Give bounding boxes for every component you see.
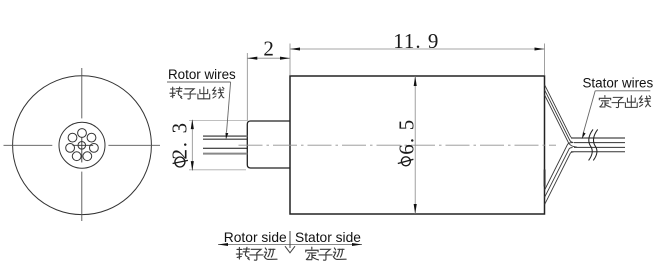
horizontal centerline right segment xyxy=(108,144,160,146)
underline rotor wires xyxy=(167,81,231,83)
wire-bundle circle xyxy=(59,122,105,168)
svg-text:11. 9: 11. 9 xyxy=(393,29,439,53)
horizontal centerline left segment xyxy=(4,144,53,146)
wire circle 6 (right) xyxy=(90,144,99,153)
extension line at x=544.5 xyxy=(544,44,546,76)
wire circle 7 (upper-right) xyxy=(87,133,96,142)
wire break curve 2 xyxy=(593,129,597,160)
center shaft circle xyxy=(78,142,86,150)
dim text phi6.5: phi symbol xyxy=(398,159,414,163)
arrow right end xyxy=(352,243,362,246)
stator wire horizontal 3 xyxy=(574,146,625,148)
stator wire horizontal 2 xyxy=(574,142,625,144)
rotor wire 4 xyxy=(203,153,247,155)
wire circle 1 (top) xyxy=(78,129,87,138)
arrow right of dim 11.9 xyxy=(535,47,545,50)
wire circle 2 (upper-left) xyxy=(68,133,77,142)
arrow left of dim 11.9 xyxy=(290,47,300,50)
outer circle (slip ring housing front view) xyxy=(13,76,152,215)
extension line at x=290 xyxy=(289,44,291,76)
wire break curve 1 xyxy=(589,129,593,160)
arrow left end xyxy=(218,243,228,246)
arrow right of dim 2 xyxy=(280,57,290,60)
svg-text:2. 3: 2. 3 xyxy=(167,121,191,159)
center mark horizontal xyxy=(73,144,94,146)
double arrow line xyxy=(218,244,362,246)
svg-text:Rotor wires: Rotor wires xyxy=(168,67,236,82)
dimension line 11.9 xyxy=(290,48,545,50)
leader arrow stator wires xyxy=(582,132,586,139)
dimension line 2 xyxy=(247,57,290,59)
extension tick top xyxy=(189,119,247,121)
divider vertical line xyxy=(289,231,291,248)
leader rotor wires xyxy=(227,82,231,133)
stator top bundle line 1 xyxy=(545,85,574,138)
arrow down of phi2.3 xyxy=(191,161,194,171)
label text 定子出线 xyxy=(599,96,650,108)
rotor wire 2 xyxy=(203,138,247,140)
dimension line phi6.5 vertical xyxy=(414,76,416,214)
arrow left of dim 2 xyxy=(247,57,257,60)
stator bottom bundle line 1 xyxy=(545,152,574,205)
stator wire horizontal 1 xyxy=(571,137,625,139)
dark merge segment on right edge bottom xyxy=(544,170,546,187)
stator top bundle line 2 xyxy=(545,90,573,143)
rotor wire 1 xyxy=(203,135,247,137)
svg-text:2: 2 xyxy=(263,36,274,60)
svg-text:Stator side: Stator side xyxy=(295,230,361,245)
vertical centerline top segment xyxy=(81,68,83,118)
rotor shaft protrusion xyxy=(247,121,290,168)
svg-text:6. 5: 6. 5 xyxy=(394,118,418,154)
arrow down of phi6.5 xyxy=(414,204,417,214)
stator bottom bundle line 2 xyxy=(545,148,573,198)
wire circle 5 (bottom-right) xyxy=(83,152,92,161)
wire circle 4 (bottom-left) xyxy=(72,152,81,161)
rotor wire 3 xyxy=(203,147,247,149)
extension tick bottom xyxy=(189,169,246,171)
label text 转子边 xyxy=(236,247,277,260)
body rectangle xyxy=(290,76,545,214)
dim text phi2.3: phi symbol xyxy=(173,160,188,163)
svg-text:Stator wires: Stator wires xyxy=(583,75,654,90)
stator wire horizontal 4 xyxy=(571,151,625,153)
stator bottom bundle line 3 xyxy=(545,143,574,190)
wire circle 3 (left) xyxy=(66,144,75,153)
leader arrow rotor wires xyxy=(226,133,229,140)
arrow up of phi2.3 xyxy=(191,119,194,129)
leader stator wires xyxy=(583,91,595,133)
stator top bundle line 3 xyxy=(545,95,577,147)
svg-text:Rotor side: Rotor side xyxy=(224,230,287,245)
center mark vertical xyxy=(81,137,83,162)
extension line at x=247.3 xyxy=(246,53,248,121)
arrow up of phi6.5 xyxy=(414,76,417,86)
underline stator wires xyxy=(595,90,650,92)
dash-dot centerline of body xyxy=(239,144,557,146)
label text 转子出线 xyxy=(170,87,224,99)
label text 定子边 xyxy=(306,247,346,260)
divider V arrowhead xyxy=(285,246,295,253)
dimension line phi2.3 vertical xyxy=(191,120,193,169)
vertical centerline bottom segment xyxy=(81,172,83,221)
